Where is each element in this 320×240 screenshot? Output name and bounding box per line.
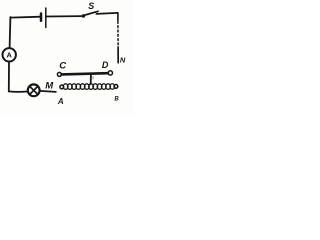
wire left vertical lower xyxy=(8,62,10,92)
rheostat terminal D xyxy=(108,71,112,75)
wire left vertical upper xyxy=(9,17,12,48)
lamp L1 cross stroke 1 xyxy=(30,86,38,94)
switch S contact dot xyxy=(82,14,86,18)
wire right vertical (to N) xyxy=(117,13,119,21)
battery B1 short plate (negative) xyxy=(40,14,43,21)
lamp L1 cross stroke 2 xyxy=(30,86,38,94)
svg-text:A: A xyxy=(6,51,12,60)
switch S lever xyxy=(85,11,98,15)
wire right vertical dotted middle xyxy=(117,22,119,48)
jockey J stem xyxy=(90,75,92,84)
svg-text:B: B xyxy=(114,97,119,103)
rheostat resistance coil A-B xyxy=(63,84,68,90)
jockey J tip xyxy=(90,83,92,86)
rheostat terminal C xyxy=(57,72,61,76)
wire top-left horizontal xyxy=(10,16,41,19)
wire lamp to terminal M xyxy=(40,91,56,92)
rheostat slider bar C-D xyxy=(62,73,109,74)
battery B1 long plate (positive) xyxy=(45,8,47,28)
wire battery to switch xyxy=(46,15,81,17)
rheostat coil terminal at A xyxy=(60,85,64,89)
wire bottom-left horizontal xyxy=(9,90,28,92)
ammeter A1 circle xyxy=(3,48,16,61)
lamp L1 circle xyxy=(28,84,40,96)
rheostat coil terminal at B xyxy=(114,85,118,89)
wire switch to top-right corner xyxy=(96,13,118,14)
svg-text:D: D xyxy=(102,60,109,70)
svg-text:A: A xyxy=(57,97,64,106)
svg-text:C: C xyxy=(59,61,66,72)
svg-text:S: S xyxy=(88,1,94,11)
svg-text:N: N xyxy=(120,55,126,64)
svg-text:M: M xyxy=(45,80,54,91)
jockey J faint label artifact xyxy=(92,76,94,79)
wire right vertical lower end xyxy=(117,47,119,63)
